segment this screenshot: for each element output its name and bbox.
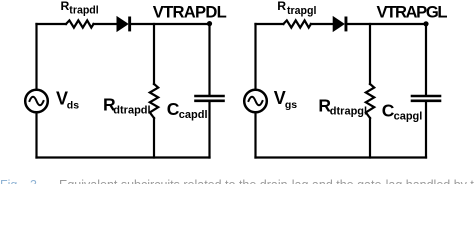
svg-text:R: R	[61, 0, 70, 13]
svg-text:capgl: capgl	[394, 110, 423, 122]
svg-text:Equivalent subcircuits related: Equivalent subcircuits related to the dr…	[59, 178, 474, 184]
svg-text:dtrapdl: dtrapdl	[113, 104, 150, 116]
svg-text:R: R	[277, 0, 286, 13]
svg-text:3.: 3.	[30, 178, 40, 184]
svg-text:dtrapgl: dtrapgl	[330, 105, 367, 117]
svg-text:trapdl: trapdl	[69, 5, 98, 17]
svg-text:VTRAPDL: VTRAPDL	[153, 3, 227, 22]
svg-text:ds: ds	[67, 100, 79, 112]
svg-text:Fig.: Fig.	[0, 178, 21, 184]
svg-text:gs: gs	[285, 99, 297, 111]
svg-text:capdl: capdl	[179, 109, 208, 121]
svg-text:VTRAPGL: VTRAPGL	[377, 3, 448, 22]
svg-text:trapgl: trapgl	[287, 5, 316, 17]
